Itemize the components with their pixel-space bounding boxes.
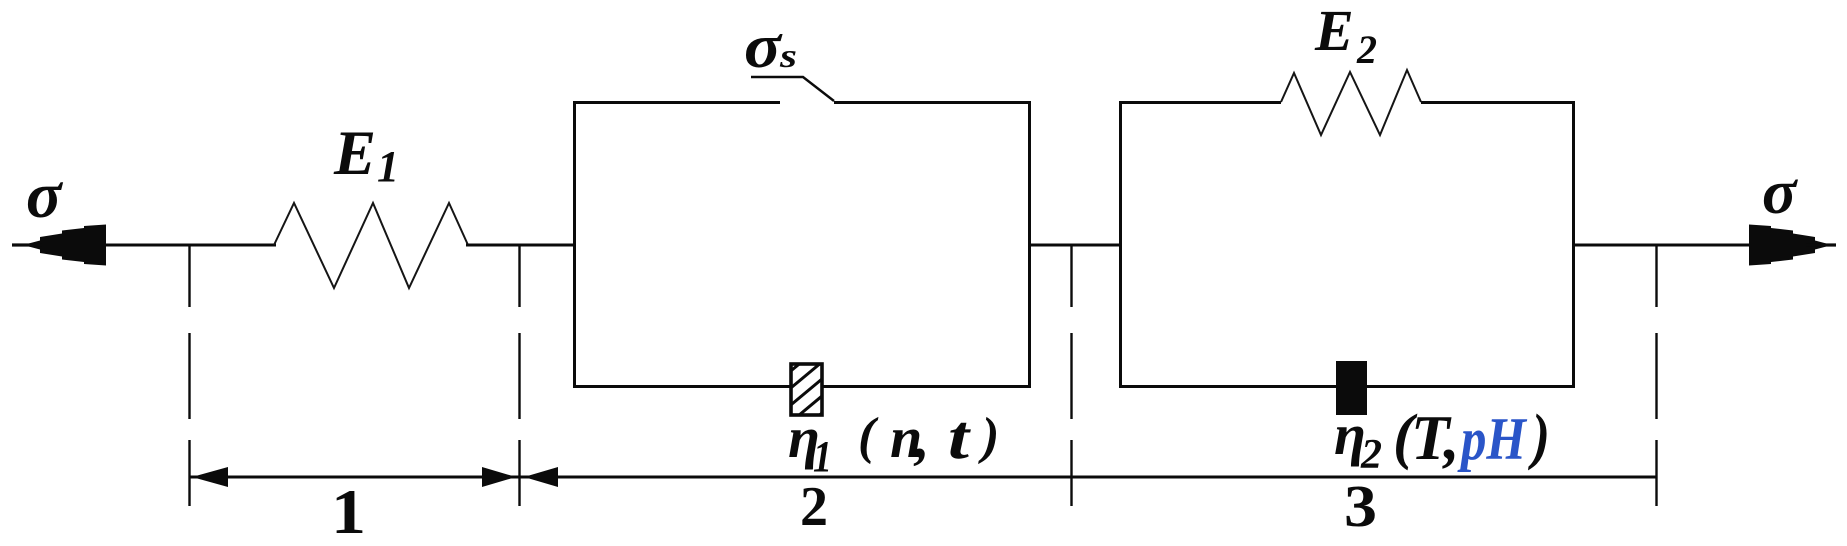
dashpot element eta2 (solid black) [1336, 361, 1367, 415]
svg-text:3: 3 [1344, 473, 1377, 539]
svg-text:1: 1 [813, 432, 832, 481]
svg-text:): ) [978, 408, 999, 465]
spring E1 [274, 203, 468, 288]
divider dashed line node 4 (x=1657) [1655, 245, 1657, 506]
svg-text:1: 1 [331, 477, 366, 546]
svg-text:pH: pH [1457, 406, 1528, 472]
dimension arrows at x=520 (back to back) [482, 467, 558, 487]
dimension line [189, 476, 1657, 479]
left stress arrow [12, 225, 106, 266]
right stress arrow [1749, 225, 1836, 266]
svg-text:σ: σ [1762, 156, 1798, 227]
spring E2 [1281, 70, 1421, 135]
box element 3 frame (Kelvin body) [1121, 103, 1574, 387]
friction slider element (hatched) [786, 340, 828, 443]
svg-text:T,: T, [1411, 403, 1459, 473]
wire: spring E1 to box 2 [466, 244, 575, 247]
label sigma_s [744, 13, 797, 81]
svg-text:2: 2 [1356, 27, 1377, 72]
svg-text:σ: σ [744, 13, 783, 81]
svg-text:2: 2 [800, 476, 828, 538]
svg-text:σ: σ [26, 159, 64, 232]
svg-text:t: t [948, 404, 971, 472]
dimension arrow left end (points left) [192, 467, 228, 487]
divider dashed line node 1 (x=189) [188, 245, 190, 506]
label eta2 (T, pH) [1334, 402, 1550, 478]
divider dashed line node 3 (x=1072) [1070, 245, 1072, 506]
label E2 [1314, 0, 1377, 72]
label eta1 (n, t) [788, 404, 999, 481]
divider dashed line node 2 (x=519) [518, 245, 520, 506]
svg-text:1: 1 [377, 142, 399, 191]
box element 2 frame (St. Venant body) [575, 103, 1030, 387]
wire: left arrow to spring E1 [104, 244, 276, 247]
svg-text:,: , [913, 405, 930, 470]
svg-text:E: E [333, 118, 376, 188]
label E1 [333, 118, 399, 191]
svg-text:s: s [779, 38, 797, 75]
svg-text:2: 2 [1360, 432, 1382, 478]
wire: box 3 to right arrow [1572, 244, 1750, 247]
svg-text:E: E [1314, 0, 1354, 63]
switch lever sigma_s [751, 77, 834, 101]
wire: box 2 to box 3 [1028, 244, 1120, 247]
